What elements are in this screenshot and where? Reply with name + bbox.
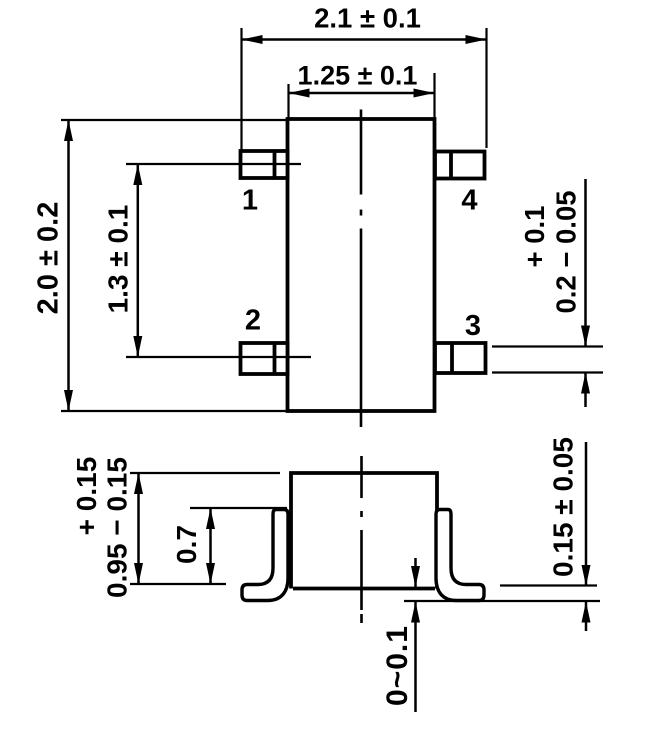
dimension 0.95 +0.15/-0.15 (body height) xyxy=(71,457,280,598)
svg-text:2.0 ± 0.2: 2.0 ± 0.2 xyxy=(32,202,64,315)
dimension 0.15 +/- 0.05 (lead thickness, right) xyxy=(500,437,597,631)
pin 4 label xyxy=(461,185,477,217)
svg-text:3: 3 xyxy=(465,310,481,342)
right lead (side view) xyxy=(436,510,484,601)
svg-text:1: 1 xyxy=(242,185,258,217)
svg-text:+ 0.1: + 0.1 xyxy=(519,206,550,268)
dimension 0.7 (lead height) xyxy=(171,508,287,584)
svg-text:+ 0.15: + 0.15 xyxy=(71,457,102,536)
package body outline (top view) xyxy=(288,119,435,411)
dimension 1.3 +/- 0.1 (pin pitch) xyxy=(103,164,311,357)
pin 1 lead xyxy=(241,151,288,178)
svg-text:2: 2 xyxy=(245,305,261,337)
pin 3 lead xyxy=(435,343,486,373)
pin 2 lead xyxy=(241,343,288,374)
pin 3 label xyxy=(465,310,481,342)
dimension 2.1 +/- 0.1 (overall width) xyxy=(242,3,487,151)
svg-text:2.1 ± 0.1: 2.1 ± 0.1 xyxy=(314,3,421,34)
left lead (side view) xyxy=(242,510,288,601)
svg-text:0~0.1: 0~0.1 xyxy=(381,625,414,706)
svg-text:0.2 − 0.05: 0.2 − 0.05 xyxy=(551,190,582,313)
svg-text:0.7: 0.7 xyxy=(171,525,202,564)
seating plane line xyxy=(404,600,600,602)
package body outline (side view) xyxy=(291,473,437,589)
svg-text:0.95 − 0.15: 0.95 − 0.15 xyxy=(101,457,132,598)
dimension 0.2 +0.1/-0.05 (lead width, right side) xyxy=(492,179,603,407)
pin 2 label xyxy=(245,305,261,337)
centerline (side view) xyxy=(360,456,363,623)
svg-text:4: 4 xyxy=(461,185,477,217)
dimension 1.25 +/- 0.1 (body width) xyxy=(289,61,435,120)
dimension 0~0.1 (standoff) xyxy=(381,558,420,712)
svg-text:1.25 ± 0.1: 1.25 ± 0.1 xyxy=(298,61,418,91)
svg-text:0.15 ± 0.05: 0.15 ± 0.05 xyxy=(548,437,579,577)
centerline (top view) xyxy=(360,110,363,428)
svg-text:1.3 ± 0.1: 1.3 ± 0.1 xyxy=(103,205,134,314)
pin 4 lead xyxy=(435,152,485,179)
pin 1 label xyxy=(242,185,258,217)
dimension 2.0 +/- 0.2 (body length) xyxy=(32,120,287,411)
